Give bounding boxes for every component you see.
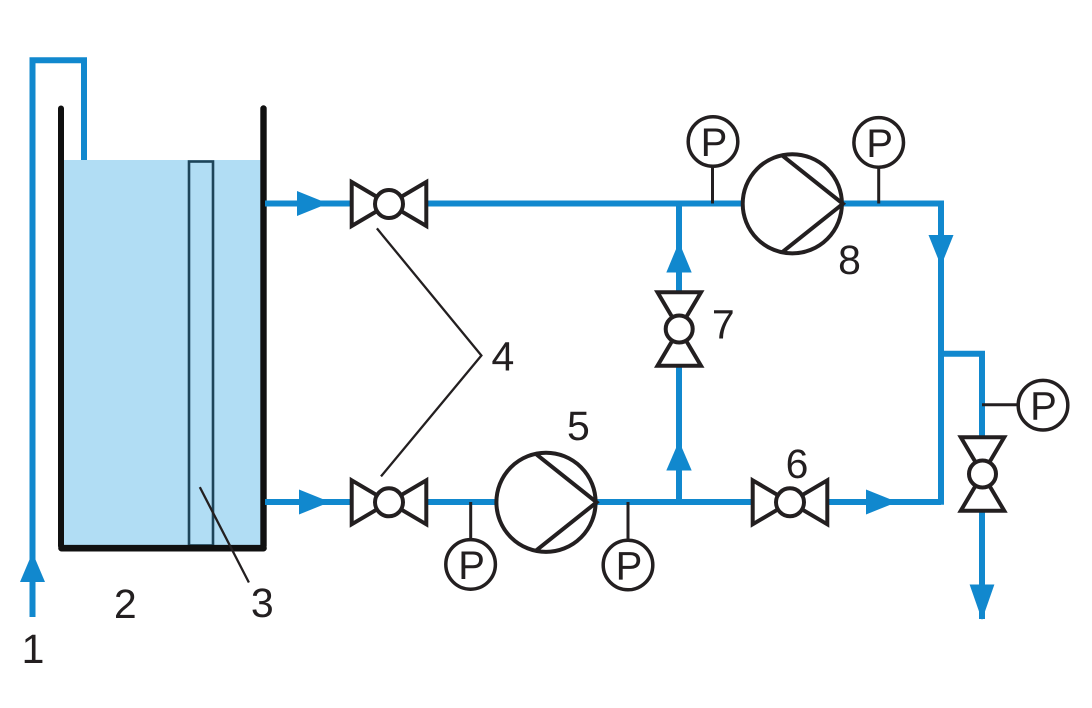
pointer line to label 3 bbox=[200, 487, 249, 582]
label 2 bbox=[116, 589, 135, 618]
outlet flow arrow (down) bbox=[970, 585, 995, 621]
gauge P5 bbox=[1018, 380, 1068, 430]
branch flow arrow lower (up) bbox=[666, 441, 691, 471]
outlet jog pipe bbox=[941, 354, 982, 619]
valve 4a (top) bbox=[352, 182, 427, 226]
gauge P3 stem bbox=[469, 502, 472, 540]
valve 6 bbox=[753, 480, 828, 524]
gauge P2 stem bbox=[877, 167, 880, 204]
gauge P2 bbox=[854, 118, 904, 168]
gauge P1 bbox=[688, 117, 738, 167]
pump 5 bbox=[496, 453, 596, 552]
label 6 bbox=[788, 449, 807, 478]
branch pipe (valve 7 riser) bbox=[676, 204, 682, 503]
top pipe flow arrow (right) bbox=[297, 191, 328, 216]
bottom pipe flow arrow 2 (right) bbox=[866, 490, 897, 515]
branch flow arrow upper (up) bbox=[666, 242, 691, 273]
pointer line to label 4 bbox=[377, 228, 482, 476]
label 8 bbox=[840, 245, 859, 274]
label 7 bbox=[714, 310, 733, 338]
valve 7 bbox=[658, 292, 702, 365]
bottom pipe flow arrow 1 (right) bbox=[299, 490, 330, 515]
valve 4b (bottom) bbox=[352, 480, 427, 524]
inlet pipe 1 bbox=[33, 60, 85, 617]
label 3 bbox=[253, 588, 272, 617]
tank 2 walls bbox=[61, 109, 264, 549]
gauge P5 stem bbox=[982, 403, 1018, 406]
gauge P4 stem bbox=[627, 502, 630, 540]
inlet flow arrow (up) bbox=[20, 553, 45, 583]
drain valve (right) bbox=[961, 437, 1004, 510]
gauge P3 bbox=[446, 540, 496, 590]
label 1 bbox=[25, 635, 43, 663]
pump 8 bbox=[743, 154, 843, 253]
bottom outlet pipe bbox=[265, 499, 941, 505]
gauge P1 stem bbox=[711, 166, 714, 204]
top outlet pipe bbox=[265, 204, 941, 505]
label 5 bbox=[569, 412, 589, 441]
label 4 bbox=[492, 342, 513, 370]
tank water fill bbox=[64, 160, 261, 545]
internal tube 3 bbox=[189, 162, 213, 546]
gauge P4 bbox=[603, 540, 653, 590]
right pipe flow arrow (down) bbox=[929, 235, 954, 266]
